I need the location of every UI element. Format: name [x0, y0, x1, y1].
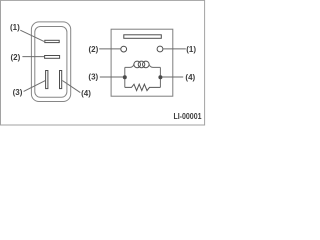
terminal circle 1: [157, 46, 163, 52]
pin 3 slot: [46, 71, 48, 89]
svg-text:(2): (2): [89, 45, 99, 54]
svg-text:(4): (4): [81, 89, 91, 98]
loop rect left edge: [124, 67, 126, 87]
leader line pin 3: [24, 81, 46, 92]
border frame: [1, 0, 205, 125]
coil L1 loops: [134, 61, 149, 68]
wire terminal 3: [100, 76, 125, 78]
contact bar: [124, 35, 162, 39]
connector J1 inner shell: [35, 27, 67, 98]
svg-text:(4): (4): [185, 73, 195, 82]
pin 2 slot: [45, 56, 60, 59]
pin 1 slot: [45, 40, 59, 42]
svg-text:(1): (1): [10, 23, 20, 32]
svg-text:(3): (3): [88, 73, 98, 82]
node dot 3: [123, 75, 127, 79]
resistor R1 zigzag: [125, 84, 161, 90]
svg-text:LI-00001: LI-00001: [173, 112, 201, 121]
connector J1 outer shell: [31, 22, 70, 102]
coil branch left lead: [125, 64, 134, 67]
svg-text:(1): (1): [186, 45, 196, 54]
svg-text:(3): (3): [13, 88, 23, 97]
leader line pin 2: [22, 56, 44, 58]
wire terminal 4: [160, 76, 183, 78]
coil branch right lead: [149, 64, 160, 67]
leader line pin 4: [62, 81, 80, 93]
relay schematic box: [111, 29, 173, 96]
svg-text:(2): (2): [11, 53, 21, 62]
wire terminal 2: [99, 48, 121, 50]
pin 4 slot: [60, 71, 62, 89]
loop rect right edge: [159, 67, 161, 87]
leader line pin 1: [20, 30, 44, 41]
node dot 4: [158, 75, 162, 79]
wire terminal 1: [163, 48, 186, 50]
terminal circle 2: [121, 46, 127, 52]
